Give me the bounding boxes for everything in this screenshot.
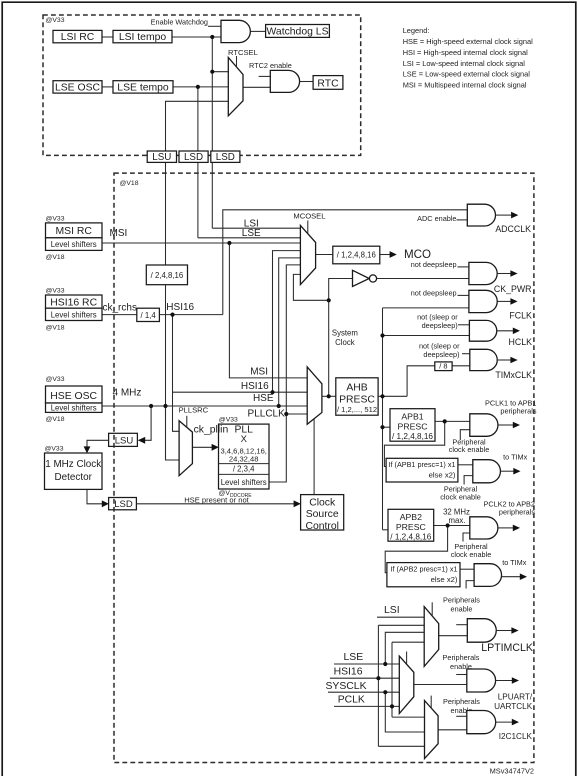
svg-text:LSE: LSE	[242, 228, 261, 239]
wire MSI from MSI RC to MCOSEL mux input 3	[102, 242, 300, 244]
svg-text:HSI16: HSI16	[241, 381, 269, 392]
oscillator HSI16 RC with level shifters	[46, 287, 103, 331]
wire APB1 PRESC output to PCLK1 gate	[435, 420, 470, 422]
wire /8 to TIMxCLK gate	[452, 365, 470, 367]
and-gate PCLK1	[470, 414, 498, 437]
svg-text:clock enable: clock enable	[451, 550, 492, 559]
wire LPUART mux output to gate	[414, 684, 467, 686]
svg-text:MCOSEL: MCOSEL	[293, 212, 325, 221]
svg-text:LSE = Low-speed external clock: LSE = Low-speed external clock signal	[403, 70, 531, 79]
and-gate LPUART/UARTCLK	[467, 669, 496, 692]
svg-text:MSI: MSI	[110, 228, 128, 239]
wire SYSCLK drop to I2C1 mux input 2	[385, 692, 424, 732]
svg-text:enable: enable	[451, 605, 473, 614]
svg-text:PRESC: PRESC	[339, 394, 375, 405]
wire HSI16 up to ADC enable gate line	[223, 210, 467, 315]
wire Enable Watchdog into watchdog gate	[208, 25, 221, 27]
svg-text:If (APB2 presc=1) x1: If (APB2 presc=1) x1	[391, 565, 458, 574]
wire HSI16 branch down to system mux / PLLSRC	[173, 315, 180, 432]
wire LPUART enable stub	[456, 674, 467, 676]
arrow into LSU box	[138, 437, 145, 444]
svg-text:LSD: LSD	[184, 152, 203, 163]
wire watchdog gate to Watchdog LS box	[250, 30, 265, 32]
svg-text:HCLK: HCLK	[509, 337, 533, 347]
svg-text:PLLSRC: PLLSRC	[179, 405, 209, 414]
arrow output TIMxCLK	[497, 359, 511, 361]
svg-text:Peripherals: Peripherals	[443, 596, 480, 605]
wire not-deepsleep stub CK_PWR	[458, 266, 469, 268]
label System Clock	[332, 329, 358, 348]
block LSE tempo	[113, 81, 173, 94]
wire HSI16 line to system clock mux input 2	[173, 391, 308, 393]
arrow output LPTIMCLK	[496, 630, 512, 632]
wire MCO divider to MCO arrow	[380, 254, 390, 256]
wire HSI16 RC to /1,4 divider	[102, 314, 137, 316]
wire LSE rise to LPTIM mux input 3	[385, 632, 424, 664]
node HSE MCOSEL branch	[277, 404, 281, 408]
node PCLK bottom branch	[390, 704, 394, 708]
arrow output PCLK2	[498, 527, 513, 529]
mux LPUART clock select	[399, 652, 414, 714]
svg-text:@V33: @V33	[46, 17, 65, 24]
svg-text:Source: Source	[306, 509, 339, 520]
arrow output ADCCLK	[496, 214, 512, 216]
wire TIMx2 enable stub	[466, 581, 474, 589]
svg-text:RTCSEL: RTCSEL	[228, 48, 258, 57]
svg-text:LSD: LSD	[114, 499, 133, 510]
level shifter LSU (top)	[147, 151, 176, 163]
oscillator MSI RC with level shifters	[46, 215, 103, 261]
arrow output TIMx1	[500, 470, 513, 472]
svg-text:HSI16 RC: HSI16 RC	[50, 298, 97, 309]
node LSE RTC branch	[196, 85, 200, 89]
wire AHB PRESC output	[378, 395, 407, 397]
and-gate TIMx (APB2)	[474, 564, 501, 587]
wire PCLK feed vertical	[391, 642, 393, 717]
arrow output CK_PWR	[497, 273, 511, 275]
svg-text:max.: max.	[449, 516, 466, 525]
wire PCLK to I2C1 mux input 1	[392, 716, 425, 718]
node LSE bottom branch	[383, 662, 387, 666]
wire RTC2 enable stub into RTC gate	[259, 75, 271, 77]
wire LSU box output to 1MHz detector	[87, 440, 109, 450]
svg-text:to TIMx: to TIMx	[503, 452, 528, 461]
block APB2 PRESC	[388, 509, 434, 541]
arrowheads	[84, 251, 397, 507]
svg-text:/ 1,2,4,8,16: / 1,2,4,8,16	[392, 432, 433, 441]
svg-text:RTC: RTC	[317, 78, 339, 89]
level shifter LSD (top, LSI)	[211, 151, 240, 163]
wire PCLK1 down to If APB1 box	[384, 421, 444, 466]
wire PLLSRC mux output to PLL	[192, 446, 212, 448]
svg-text:24,32,48: 24,32,48	[229, 454, 259, 463]
svg-text:/ 2,4,8,16: / 2,4,8,16	[151, 271, 184, 280]
svg-text:Legend:: Legend:	[403, 26, 430, 35]
block RTC	[313, 76, 343, 90]
wire LSI tempo to watchdog AND gate	[172, 36, 221, 38]
svg-text:@V18: @V18	[46, 416, 65, 423]
svg-text:FCLK: FCLK	[509, 310, 532, 320]
arrow output TIMx2	[502, 576, 521, 578]
level shifter LSD (top, LSE)	[179, 151, 208, 163]
svg-text:@V33: @V33	[219, 417, 238, 424]
svg-text:/ 1,2,4,8,16: / 1,2,4,8,16	[390, 532, 431, 541]
and-gate LPTIMCLK	[467, 619, 496, 643]
node SYSCLK MCOSEL branch	[327, 298, 331, 302]
svg-text:Peripherals: Peripherals	[443, 653, 480, 662]
svg-text:SYSCLK: SYSCLK	[326, 681, 367, 692]
wire HSI16 to LPTIM mux input 2	[378, 624, 424, 626]
wire SYSCLK loop to MCOSEL input 7	[293, 274, 328, 300]
wire SYSCLK line into LPUART mux	[328, 691, 399, 693]
svg-text:MCO: MCO	[404, 248, 431, 261]
wire HCLK/8 riser to /8 box	[407, 366, 435, 397]
svg-text:RTC2 enable: RTC2 enable	[249, 61, 292, 70]
svg-text:Level shifters: Level shifters	[51, 240, 97, 249]
and-gate I2C1CLK	[467, 711, 496, 734]
wire PCLK2 down to If APB2 box	[385, 526, 447, 573]
node HSI16 MCOSEL branch	[270, 390, 274, 394]
node PLLCLK junction	[284, 412, 288, 416]
svg-text:APB2: APB2	[400, 512, 422, 522]
svg-text:CK_PWR: CK_PWR	[494, 284, 532, 294]
svg-text:MSI = Multispeed internal cloc: MSI = Multispeed internal clock signal	[403, 81, 527, 90]
node HCLK gate branch	[380, 333, 384, 337]
and-gate TIMx (APB1)	[473, 460, 501, 483]
node HSE RTC-divider branch	[163, 404, 167, 408]
svg-text:System: System	[332, 329, 358, 338]
arrow output PCLK1	[498, 424, 513, 426]
gate output arrows	[496, 212, 527, 726]
svg-text:/ 8: / 8	[439, 362, 447, 371]
and-gate TIMxCLK	[470, 349, 497, 370]
svg-text:peripherals: peripherals	[499, 508, 535, 517]
svg-text:LSI: LSI	[384, 605, 400, 616]
wire LPTIM enable stub	[456, 624, 467, 626]
block APB1 PRESC	[390, 409, 435, 442]
svg-text:clock enable: clock enable	[449, 445, 490, 454]
top dashed box @V33 battery domain	[43, 15, 361, 155]
svg-text:MSI RC: MSI RC	[56, 226, 93, 237]
svg-text:AHB: AHB	[346, 382, 367, 393]
LSD level-shifter box (detector output path, under dashed edge)	[109, 498, 137, 511]
wire LSI line to LPTIM mux	[377, 616, 424, 618]
divider /1,2,4,8,16 (MCO prescaler)	[333, 246, 380, 264]
wire RTCSEL mux output to RTC gate	[243, 86, 270, 88]
svg-text:1 MHz Clock: 1 MHz Clock	[45, 459, 101, 470]
wire not-sleep stub TIMxCLK	[462, 353, 470, 355]
wire LSE line into LPUART mux	[334, 663, 399, 665]
svg-text:Watchdog LS: Watchdog LS	[267, 27, 329, 38]
wire PCLK to LPTIM mux input 4	[392, 641, 424, 643]
wire HCLK into APB1 PRESC	[383, 426, 391, 428]
mux PLLSRC	[179, 405, 209, 475]
wire /1,4 divider to ADC-line elbow	[159, 314, 222, 316]
wire HSI16 rise to MCOSEL input 4	[273, 251, 301, 393]
svg-text:PLLCLK: PLLCLK	[248, 409, 286, 420]
wire HSE rise to MCOSEL input 5	[279, 258, 301, 406]
svg-text:MSv34747V2: MSv34747V2	[490, 767, 534, 776]
wire I2C1 enable stub	[456, 715, 467, 717]
and-gate CK_PWR	[469, 262, 497, 284]
wire HCLK into APB2 PRESC	[383, 529, 389, 531]
mux RTCSEL	[228, 48, 258, 116]
wire HSE/div RTC branch vertical through /2,4,8,16 and LSU to RTCSEL input 3	[166, 101, 229, 460]
wire LPTIM mux output to gate	[439, 635, 468, 637]
svg-text:Detector: Detector	[55, 472, 93, 483]
and-gate PCLK2	[470, 517, 498, 539]
svg-text:not deepsleep: not deepsleep	[411, 289, 457, 298]
arrow output I2C1CLK	[496, 721, 513, 723]
wire APB2 PRESC output to PCLK2 gate	[434, 525, 470, 527]
wire inverter output to CK_PWR gate	[377, 278, 469, 280]
svg-text:LPTIMCLK: LPTIMCLK	[481, 642, 533, 654]
svg-text:@V33: @V33	[46, 376, 65, 383]
wire HCLK main vertical distribution	[382, 308, 384, 530]
arrow output HCLK	[497, 330, 513, 332]
node LSI watchdog branch	[210, 35, 214, 39]
svg-text:HSI16: HSI16	[334, 666, 363, 677]
inverter (not deepsleep path)	[353, 270, 377, 286]
svg-text:LSE OSC: LSE OSC	[55, 82, 101, 93]
wire PCLK2 enable stub	[463, 533, 470, 542]
svg-text:PCLK: PCLK	[338, 695, 365, 706]
arrow into 1MHz detector	[84, 446, 91, 453]
svg-text:HSI16: HSI16	[166, 302, 194, 313]
svg-text:I2C1CLK: I2C1CLK	[499, 732, 533, 741]
node SYSCLK bottom branch	[383, 690, 387, 694]
svg-text:deepsleep): deepsleep)	[422, 321, 458, 330]
wire PCLK line into LPUART mux	[334, 705, 399, 707]
svg-text:deepsleep): deepsleep)	[423, 350, 459, 359]
svg-text:Clock: Clock	[309, 497, 336, 508]
wire PCLK1 enable stub	[460, 430, 470, 440]
block PLL	[219, 417, 270, 499]
svg-text:LSI tempo: LSI tempo	[119, 32, 167, 43]
wire LSD to Clock Source Control (HSE present or not)	[136, 503, 294, 505]
mux LPTIM clock select	[424, 602, 439, 666]
wire HSE down to PLLSRC mux input 2	[166, 406, 180, 460]
svg-text:Level shifters: Level shifters	[51, 404, 97, 413]
wire system mux output to AHB PRESC	[322, 395, 336, 397]
wire PLL output rise to PLLCLK net and MCOSEL input 6	[269, 265, 300, 482]
svg-text:TIMxCLK: TIMxCLK	[495, 370, 532, 380]
and-gate ADC clock	[467, 204, 495, 226]
arrow into PLL	[212, 444, 219, 451]
divider /8	[435, 362, 452, 371]
and-gate FCLK	[469, 290, 497, 312]
node APB1 feed branch	[380, 425, 384, 429]
arrow into LSD box	[102, 500, 109, 507]
wire If APB2 to TIMx gate 2	[460, 568, 474, 570]
svg-text:to TIMx: to TIMx	[502, 558, 527, 567]
block Watchdog LS	[266, 25, 330, 38]
arrow MCO	[390, 251, 397, 258]
svg-text:HSE = High-speed external cloc: HSE = High-speed external clock signal	[403, 37, 533, 46]
arrow into Clock Source Control	[294, 500, 301, 507]
svg-text:ADC enable: ADC enable	[417, 214, 456, 223]
LSU level-shifter box (HSE to 1MHz detector path, under dashed edge)	[109, 433, 138, 446]
svg-text:@V18: @V18	[120, 180, 139, 187]
svg-text:LSE tempo: LSE tempo	[117, 82, 169, 93]
svg-text:LSI = Low-speed internal clock: LSI = Low-speed internal clock signal	[403, 59, 526, 68]
and-gate RTC U2	[270, 70, 299, 92]
wire HSE branch down to LSU box	[140, 406, 151, 440]
svg-text:peripherals: peripherals	[500, 406, 536, 415]
wire LSI RC to LSI tempo	[102, 36, 113, 38]
wire LSE to MCOSEL mux input 2	[198, 237, 301, 239]
svg-text:Control: Control	[305, 521, 339, 532]
wire ADC enable stub	[457, 219, 468, 221]
svg-text:/ 1,2,4,8,16: / 1,2,4,8,16	[337, 251, 376, 260]
node HSI16 bottom branch	[376, 676, 380, 680]
svg-text:X: X	[241, 433, 248, 444]
svg-text:ck_pllin: ck_pllin	[194, 425, 229, 436]
svg-text:/ 1,4: / 1,4	[141, 311, 157, 320]
svg-text:Level shifters: Level shifters	[221, 478, 267, 487]
svg-text:Clock: Clock	[335, 338, 355, 347]
node HCLK distribution	[380, 394, 384, 398]
block LSI tempo	[113, 30, 172, 43]
wire MCOSEL output to MCO divider	[316, 254, 333, 256]
svg-text:@V33: @V33	[45, 446, 64, 453]
svg-text:else x2): else x2)	[431, 575, 458, 584]
wire TIMx1 enable stub	[464, 476, 473, 485]
wire I2C1 mux output to gate	[438, 729, 467, 731]
mux I2C1 clock select	[425, 696, 439, 759]
block Clock Source Control	[301, 495, 344, 532]
mux system clock (SW)	[307, 367, 322, 424]
svg-text:LPUART/: LPUART/	[498, 693, 533, 702]
svg-text:@V33: @V33	[46, 287, 65, 294]
svg-text:Enable Watchdog: Enable Watchdog	[151, 17, 208, 26]
svg-text:Peripherals: Peripherals	[443, 697, 480, 706]
divider /2,4,8,16 (RTC HSE divider)	[146, 265, 187, 285]
wire PLLCLK into system clock mux input 4	[286, 413, 307, 415]
block 1 MHz Clock Detector	[45, 446, 103, 490]
node PCLK2 branch	[446, 523, 450, 527]
wire MSI branch down to system clock mux input 1	[229, 243, 307, 378]
arrow output LPUART	[496, 680, 513, 682]
svg-text:PRESC: PRESC	[398, 421, 428, 431]
wire LSI into RTCSEL mux input 1	[212, 71, 228, 73]
wire HCLK gate lower input	[383, 335, 470, 337]
svg-text:PRESC: PRESC	[396, 522, 426, 532]
wire RTC gate to RTC box	[300, 81, 314, 83]
block AHB PRESC	[336, 378, 378, 415]
block If APB1 presc	[386, 458, 458, 482]
block If APB2 presc	[387, 563, 460, 587]
svg-text:/ 1,2,..., 512: / 1,2,..., 512	[337, 405, 377, 414]
wire LSE OSC to LSE tempo	[102, 86, 113, 88]
svg-text:If (APB1 presc=1) x1: If (APB1 presc=1) x1	[389, 460, 456, 469]
svg-text:/ 2,3,4: / 2,3,4	[233, 465, 255, 474]
svg-text:LSU: LSU	[152, 152, 171, 163]
svg-text:not deepsleep: not deepsleep	[411, 260, 457, 269]
and-gate watchdog U1	[221, 20, 250, 42]
wire not-deepsleep stub FCLK	[458, 294, 469, 296]
svg-text:HSE: HSE	[253, 393, 274, 404]
svg-text:@V18: @V18	[46, 254, 65, 261]
oscillator LSE OSC	[53, 81, 102, 94]
svg-text:HSE OSC: HSE OSC	[50, 391, 97, 402]
wire Clock Source Control up to system mux select	[313, 419, 315, 495]
wire FCLK gate lower input	[383, 307, 469, 309]
main dashed box @V18 core domain	[114, 173, 534, 762]
svg-text:ck_rchs: ck_rchs	[103, 302, 137, 313]
wire If APB1 to TIMx gate	[458, 464, 473, 466]
svg-text:LSD: LSD	[216, 152, 235, 163]
wire not-sleep stub HCLK	[458, 324, 469, 326]
svg-text:APB1: APB1	[401, 411, 423, 421]
wire HSI16 feed vertical (LPTIM/I2C muxes)	[377, 625, 379, 746]
wire HSI16 line into LPUART mux	[330, 677, 399, 679]
wire LSE tempo to RTCSEL mux input 2	[173, 86, 228, 88]
oscillator LSI RC	[53, 30, 102, 43]
wire LSE branch vertical down through LSD box	[197, 87, 199, 238]
svg-text:HSI = High-speed internal cloc: HSI = High-speed internal clock signal	[403, 48, 528, 57]
svg-text:@V33: @V33	[46, 215, 65, 222]
oscillator HSE OSC with level shifters	[46, 376, 103, 423]
svg-text:LSU: LSU	[115, 435, 134, 446]
wire LSI branch vertical down through LSD box to MCOSEL LSI line	[211, 37, 213, 228]
node MSI branch	[227, 241, 231, 245]
svg-text:clock enable: clock enable	[440, 492, 481, 501]
svg-text:LSI RC: LSI RC	[61, 32, 95, 43]
svg-text:UARTCLK: UARTCLK	[494, 702, 533, 711]
mux MCOSEL	[293, 212, 325, 285]
svg-text:4 MHz: 4 MHz	[113, 388, 142, 399]
wire system clock vertical to inverter	[329, 279, 353, 397]
wire HSI16 to I2C1 mux input 3	[378, 745, 424, 747]
and-gate HCLK	[469, 320, 496, 341]
wire LSI to MCOSEL mux input 1	[212, 227, 300, 229]
node HSI16 source branch	[170, 313, 174, 317]
node LSI RTCSEL branch	[210, 70, 214, 74]
svg-text:LSE: LSE	[344, 652, 364, 663]
arrow output FCLK	[497, 300, 511, 302]
node PCLK1 branch	[443, 419, 447, 423]
svg-text:@V18: @V18	[46, 324, 65, 331]
wire 1MHz detector output to LSD box	[87, 489, 102, 503]
legend text block	[403, 26, 533, 89]
divider /1,4	[137, 308, 160, 321]
svg-text:32 MHz: 32 MHz	[443, 508, 470, 517]
node SYSCLK at AHB input	[327, 394, 331, 398]
wire HSE OSC 4MHz line to system clock mux input 3	[102, 405, 307, 407]
node HSE LSU branch	[149, 404, 153, 408]
svg-text:else x2): else x2)	[429, 470, 456, 479]
svg-text:Level shifters: Level shifters	[51, 310, 97, 319]
svg-text:ADCCLK: ADCCLK	[495, 224, 531, 234]
svg-text:MSI: MSI	[250, 366, 268, 377]
